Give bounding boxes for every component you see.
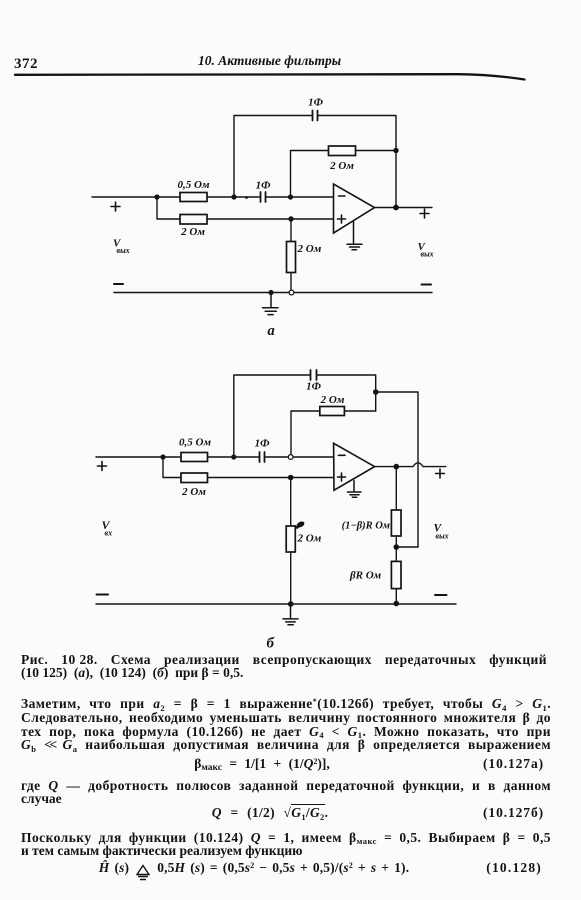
svg-text:2 Ом: 2 Ом	[297, 243, 322, 255]
svg-text:1Ф: 1Ф	[306, 381, 322, 393]
svg-text:вых: вых	[421, 250, 434, 259]
svg-text:вх: вх	[105, 529, 113, 538]
svg-text:2 Ом: 2 Ом	[180, 226, 205, 238]
svg-text:1Ф: 1Ф	[255, 438, 271, 450]
svg-text:(1−β)R Ом: (1−β)R Ом	[342, 521, 390, 532]
svg-text:2 Ом: 2 Ом	[297, 533, 322, 545]
svg-text:0,5 Ом: 0,5 Ом	[178, 179, 210, 191]
svg-text:б: б	[267, 636, 275, 652]
svg-text:1Ф: 1Ф	[256, 180, 272, 192]
svg-text:0,5 Ом: 0,5 Ом	[179, 437, 211, 449]
svg-text:2 Ом: 2 Ом	[320, 394, 345, 406]
svg-text:βR Ом: βR Ом	[349, 570, 382, 582]
svg-text:1Ф: 1Ф	[308, 97, 324, 109]
svg-text:вых: вых	[117, 246, 130, 255]
svg-text:вых: вых	[436, 532, 449, 541]
svg-text:2 Ом: 2 Ом	[181, 486, 206, 498]
svg-text:а: а	[268, 323, 275, 339]
svg-text:2 Ом: 2 Ом	[329, 160, 354, 172]
